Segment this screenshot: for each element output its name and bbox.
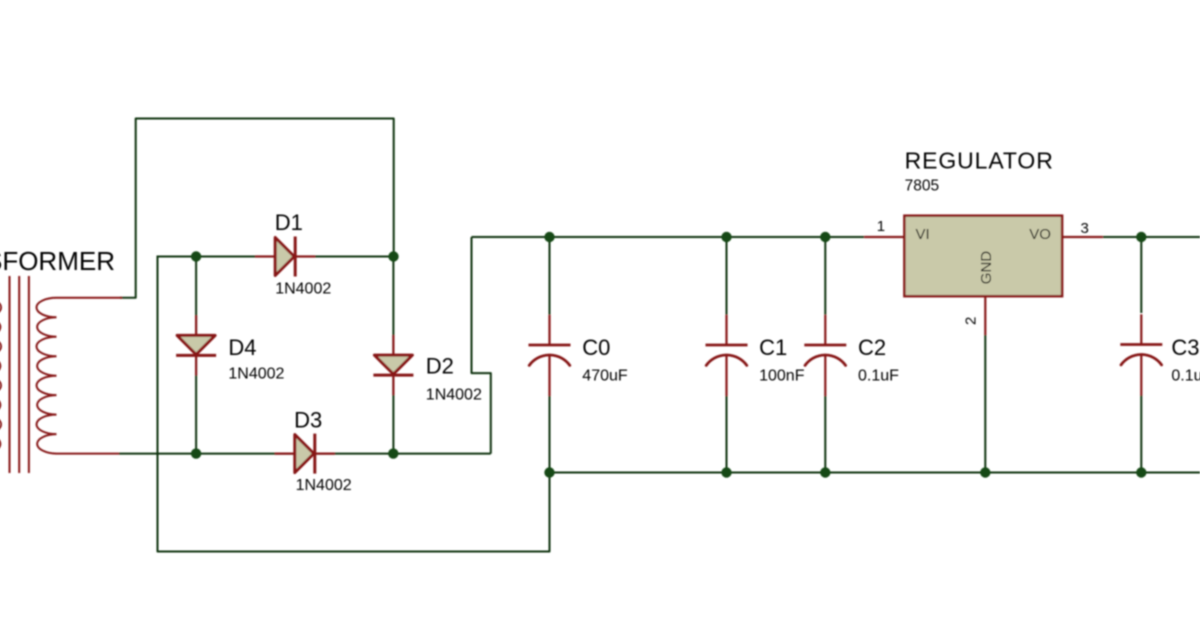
svg-text:D2: D2 (426, 353, 454, 378)
svg-text:VI: VI (916, 226, 930, 243)
svg-text:1: 1 (877, 218, 885, 235)
svg-text:C3: C3 (1171, 335, 1199, 360)
svg-text:D1: D1 (275, 210, 303, 235)
svg-text:1N4002: 1N4002 (275, 281, 331, 298)
svg-text:1N4002: 1N4002 (228, 366, 284, 383)
svg-text:7805: 7805 (905, 177, 939, 194)
svg-text:1N4002: 1N4002 (296, 477, 352, 494)
svg-text:1N4002: 1N4002 (426, 387, 482, 404)
svg-text:TRANSFORMER: TRANSFORMER (0, 246, 115, 276)
svg-text:VO: VO (1029, 226, 1051, 243)
svg-text:3: 3 (1081, 220, 1089, 237)
svg-text:C1: C1 (759, 335, 787, 360)
svg-text:D3: D3 (294, 408, 322, 433)
svg-text:0.1uF: 0.1uF (1171, 368, 1200, 385)
svg-text:2: 2 (963, 317, 980, 325)
svg-text:470uF: 470uF (582, 368, 628, 385)
svg-text:100nF: 100nF (759, 368, 805, 385)
svg-text:D4: D4 (228, 335, 256, 360)
svg-text:GND: GND (978, 251, 995, 285)
svg-text:0.1uF: 0.1uF (858, 368, 899, 385)
svg-text:REGULATOR: REGULATOR (905, 147, 1054, 173)
svg-text:C2: C2 (858, 335, 886, 360)
svg-text:C0: C0 (582, 335, 610, 360)
